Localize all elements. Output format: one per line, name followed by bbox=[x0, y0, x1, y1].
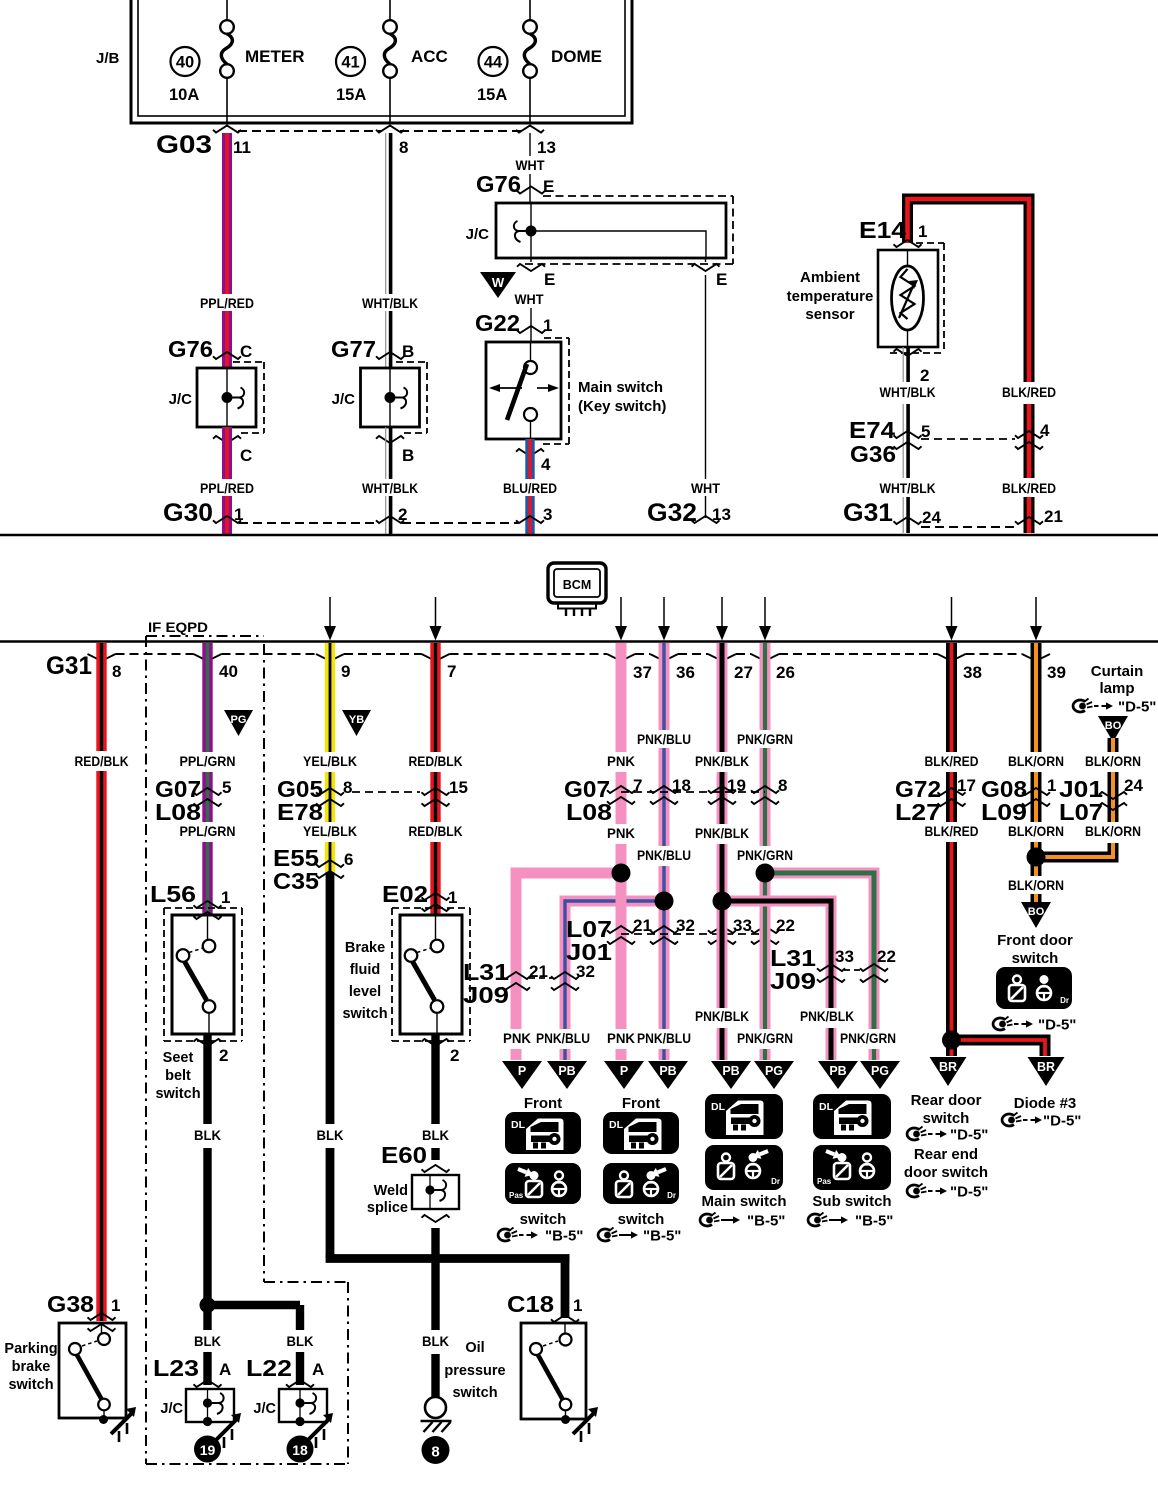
rear door switch labels bbox=[911, 1092, 982, 1127]
svg-text:PPL/GRN: PPL/GRN bbox=[180, 754, 236, 769]
connector G30 row bbox=[163, 499, 552, 527]
svg-text:BCM: BCM bbox=[563, 578, 591, 592]
wire PNK/BLU to L07/J01-32 and triangle bbox=[637, 906, 691, 1060]
svg-text:YB: YB bbox=[349, 714, 364, 726]
reference eye B-5 (driver switch) bbox=[598, 1228, 681, 1245]
wire code triangle BO (curtain lamp) bbox=[1098, 716, 1128, 742]
wire PNK branch to L31/J09-21 bbox=[503, 873, 621, 1060]
svg-text:33: 33 bbox=[733, 916, 752, 935]
svg-text:"B-5": "B-5" bbox=[545, 1228, 583, 1245]
svg-text:WHT: WHT bbox=[691, 481, 721, 496]
svg-text:PNK/BLU: PNK/BLU bbox=[637, 848, 691, 863]
connector G31 (lower) dashed row with pin numbers bbox=[46, 652, 1066, 682]
svg-text:Seet: Seet bbox=[163, 1050, 194, 1066]
svg-text:P: P bbox=[620, 1064, 628, 1078]
junction dot seat-belt ground branch bbox=[200, 1297, 216, 1313]
svg-text:switch: switch bbox=[923, 1110, 970, 1127]
svg-text:24: 24 bbox=[1124, 776, 1143, 795]
connector L31 J09 (pins 33 22, right) bbox=[770, 945, 896, 994]
svg-text:Front door: Front door bbox=[997, 932, 1073, 949]
svg-text:belt: belt bbox=[165, 1068, 191, 1084]
svg-text:1: 1 bbox=[111, 1296, 120, 1315]
svg-text:PG: PG bbox=[871, 1064, 889, 1078]
wire PNK/GRN branch to L31/J09-22 bbox=[765, 873, 896, 1060]
diode 3 label bbox=[1014, 1095, 1077, 1112]
svg-text:PNK/BLU: PNK/BLU bbox=[637, 1031, 691, 1046]
svg-text:J01: J01 bbox=[566, 939, 612, 965]
wire code triangle BO (front door switch) bbox=[1021, 902, 1051, 928]
svg-text:PNK/BLU: PNK/BLU bbox=[637, 732, 691, 747]
svg-text:PB: PB bbox=[722, 1064, 739, 1078]
wire BLK/ORN from G31-39 to front door switch bbox=[1008, 643, 1064, 902]
seat belt switch L56 bbox=[150, 881, 242, 1102]
svg-text:BLK/ORN: BLK/ORN bbox=[1085, 754, 1141, 769]
fuse 40 METER 10A bbox=[169, 0, 305, 123]
connector G07 L08 (pin 5) bbox=[155, 776, 231, 825]
svg-text:L09: L09 bbox=[981, 799, 1027, 825]
svg-text:Oil: Oil bbox=[465, 1340, 484, 1356]
svg-text:Front: Front bbox=[524, 1095, 562, 1112]
svg-text:Diode #3: Diode #3 bbox=[1014, 1095, 1077, 1112]
svg-text:Parking: Parking bbox=[4, 1341, 57, 1357]
wire PPL/RED from G03-11 to G76 bbox=[200, 133, 254, 368]
wire BLK junction to L23 bbox=[194, 1309, 221, 1385]
junction dot PNK/BLK bbox=[713, 892, 732, 911]
svg-text:2: 2 bbox=[450, 1046, 459, 1065]
svg-text:PNK/BLK: PNK/BLK bbox=[800, 1009, 854, 1024]
svg-text:19: 19 bbox=[727, 776, 746, 795]
wire BLK from E55/C35-6 to oil pressure switch branch bbox=[317, 872, 344, 1258]
svg-text:fluid: fluid bbox=[350, 962, 381, 978]
fuse 41 ACC 15A bbox=[336, 0, 448, 123]
junction dot BLK/ORN bbox=[1027, 848, 1046, 867]
connector L07 J01 (pins 21 32 33 22) bbox=[566, 916, 795, 965]
svg-text:15A: 15A bbox=[336, 86, 366, 104]
svg-text:11: 11 bbox=[233, 138, 251, 157]
svg-text:37: 37 bbox=[633, 663, 652, 682]
connector L31 J09 (pins 21 32, left) bbox=[463, 959, 595, 1008]
svg-text:15A: 15A bbox=[477, 86, 507, 104]
svg-text:ACC: ACC bbox=[411, 47, 448, 66]
reference eye D-5 (rear end door switch) bbox=[907, 1184, 988, 1201]
svg-text:"B-5": "B-5" bbox=[747, 1213, 785, 1230]
svg-text:8: 8 bbox=[431, 1444, 439, 1461]
svg-text:G03: G03 bbox=[156, 131, 212, 159]
svg-text:27: 27 bbox=[734, 663, 753, 682]
svg-text:lamp: lamp bbox=[1099, 680, 1134, 697]
svg-text:38: 38 bbox=[963, 663, 982, 682]
separator line between sections bbox=[0, 534, 1158, 537]
wire PNK/GRN from G31-26 bbox=[737, 643, 793, 867]
wire YEL/BLK from G31-9 to E55/C35 bbox=[303, 643, 357, 872]
wire WHT/BLK from G77-B to G30-2 bbox=[362, 427, 418, 534]
svg-text:Weld: Weld bbox=[374, 1183, 408, 1199]
svg-text:1: 1 bbox=[543, 316, 552, 335]
connector G32 bbox=[647, 499, 731, 527]
wire BLK/RED branch to diode 3 bbox=[952, 1040, 1046, 1056]
svg-text:J/C: J/C bbox=[253, 1401, 276, 1417]
svg-text:PNK/GRN: PNK/GRN bbox=[737, 732, 793, 747]
svg-text:33: 33 bbox=[835, 947, 854, 966]
svg-text:BLK/RED: BLK/RED bbox=[1002, 481, 1056, 496]
svg-text:1: 1 bbox=[918, 222, 927, 241]
svg-text:BLK: BLK bbox=[317, 1128, 344, 1143]
junction connector G76 (top right) J/C bbox=[466, 171, 733, 264]
svg-text:temperature: temperature bbox=[787, 288, 874, 305]
svg-text:J09: J09 bbox=[463, 982, 509, 1008]
wire WHT from G03-13 to G76-E bbox=[516, 133, 546, 203]
rear end door switch labels bbox=[904, 1146, 988, 1181]
wire RED/BLK from G31-8 to G38-1 bbox=[75, 643, 129, 1321]
svg-text:Rear end: Rear end bbox=[914, 1146, 978, 1163]
svg-text:sensor: sensor bbox=[805, 306, 854, 323]
svg-text:RED/BLK: RED/BLK bbox=[409, 754, 463, 769]
svg-text:PNK: PNK bbox=[607, 826, 635, 841]
reference eye D-5 (front door switch) bbox=[993, 1017, 1076, 1034]
svg-text:PNK/BLK: PNK/BLK bbox=[695, 1009, 749, 1024]
svg-text:L08: L08 bbox=[566, 799, 612, 825]
svg-text:G32: G32 bbox=[647, 499, 697, 527]
svg-text:21: 21 bbox=[633, 916, 652, 935]
svg-text:L22: L22 bbox=[246, 1355, 292, 1381]
svg-text:J/C: J/C bbox=[466, 226, 490, 243]
wire BLK horizontal run to C18 bbox=[326, 1258, 570, 1318]
arrows from BCM into bus bbox=[324, 597, 1042, 641]
svg-text:YEL/BLK: YEL/BLK bbox=[303, 754, 357, 769]
svg-text:4: 4 bbox=[541, 455, 551, 474]
svg-text:2: 2 bbox=[920, 366, 929, 385]
svg-text:BR: BR bbox=[1037, 1060, 1055, 1074]
svg-text:WHT/BLK: WHT/BLK bbox=[362, 296, 418, 311]
svg-text:E: E bbox=[543, 177, 554, 196]
svg-text:G22: G22 bbox=[475, 310, 520, 336]
svg-text:Dr: Dr bbox=[771, 1177, 780, 1186]
wire BLK/RED from E14-1 to G31-21 bbox=[908, 199, 1057, 533]
svg-text:C: C bbox=[240, 342, 252, 361]
svg-text:DL: DL bbox=[819, 1101, 834, 1113]
connector G08 L09 (pin 1) bbox=[981, 776, 1056, 825]
svg-text:IF EQPD: IF EQPD bbox=[148, 619, 208, 635]
svg-text:PPL/GRN: PPL/GRN bbox=[180, 824, 236, 839]
junction block J/B bbox=[96, 0, 632, 123]
svg-text:splice: splice bbox=[367, 1200, 408, 1216]
connector E02 pin 15 bbox=[422, 778, 468, 806]
svg-text:BLK: BLK bbox=[287, 1334, 314, 1349]
svg-text:"D-5": "D-5" bbox=[1118, 699, 1156, 716]
svg-text:BLK: BLK bbox=[194, 1334, 221, 1349]
junction dot BLK/RED bbox=[942, 1031, 961, 1050]
svg-text:PG: PG bbox=[231, 714, 247, 726]
svg-text:WHT/BLK: WHT/BLK bbox=[880, 481, 936, 496]
svg-text:E60: E60 bbox=[381, 1142, 427, 1168]
svg-text:"D-5": "D-5" bbox=[1043, 1113, 1081, 1130]
svg-text:door switch: door switch bbox=[904, 1164, 988, 1181]
wire PNK to L07/J01-21 and triangle bbox=[607, 878, 635, 1060]
svg-text:G77: G77 bbox=[331, 336, 376, 362]
svg-text:C35: C35 bbox=[273, 868, 319, 894]
svg-text:DL: DL bbox=[711, 1101, 726, 1113]
svg-text:BLK/ORN: BLK/ORN bbox=[1085, 824, 1141, 839]
svg-text:10A: 10A bbox=[169, 86, 199, 104]
svg-text:18: 18 bbox=[672, 776, 691, 795]
svg-text:PNK/BLK: PNK/BLK bbox=[695, 754, 749, 769]
svg-text:E: E bbox=[716, 270, 727, 289]
svg-text:WHT: WHT bbox=[515, 292, 545, 307]
connector E74 G36 row bbox=[849, 417, 1050, 467]
svg-text:Main switch: Main switch bbox=[578, 379, 663, 396]
svg-text:"D-5": "D-5" bbox=[950, 1184, 988, 1201]
svg-text:switch: switch bbox=[452, 1385, 497, 1401]
reference eye D-5 (rear door switch) bbox=[907, 1127, 988, 1144]
connector G03 row bbox=[156, 126, 556, 160]
BCM module bbox=[548, 563, 606, 616]
junction connector L22 J/C with ground 18 bbox=[246, 1355, 333, 1463]
svg-text:18: 18 bbox=[292, 1442, 308, 1458]
junction dot PNK bbox=[612, 864, 631, 883]
weld splice E60 bbox=[367, 1142, 459, 1222]
svg-text:Sub switch: Sub switch bbox=[812, 1193, 891, 1210]
svg-text:2: 2 bbox=[219, 1046, 228, 1065]
svg-text:BO: BO bbox=[1105, 720, 1122, 732]
svg-text:J/C: J/C bbox=[169, 391, 193, 408]
svg-text:Main switch: Main switch bbox=[701, 1193, 786, 1210]
svg-text:G36: G36 bbox=[850, 441, 896, 467]
wire PPL/RED from G76-C to G30-1 bbox=[200, 427, 254, 534]
svg-text:G76: G76 bbox=[476, 171, 521, 197]
svg-text:Curtain: Curtain bbox=[1091, 663, 1144, 680]
svg-text:A: A bbox=[219, 1360, 231, 1379]
reference eye B-5 (passenger switch) bbox=[498, 1228, 583, 1245]
front door switch labels bbox=[997, 932, 1073, 967]
svg-text:39: 39 bbox=[1047, 663, 1066, 682]
wire PNK/GRN to PG triangle (main) bbox=[737, 878, 793, 1060]
svg-text:C18: C18 bbox=[507, 1291, 554, 1317]
sub switch icons bbox=[812, 1094, 891, 1210]
wire WHT from J/C G76-E to G22-1 bbox=[515, 258, 556, 341]
junction connector G76 J/C bbox=[168, 336, 264, 465]
svg-text:BLK: BLK bbox=[422, 1334, 449, 1349]
junction connector L23 J/C with ground 19 bbox=[153, 1355, 241, 1463]
curtain lamp label bbox=[1091, 663, 1144, 697]
ground 8 bbox=[421, 1397, 452, 1464]
wire RED/BLK from G31-7 to E02-1 bbox=[409, 643, 463, 915]
svg-text:Front: Front bbox=[622, 1095, 660, 1112]
connector G07 L08 (pins 7 18 19 8) bbox=[564, 776, 787, 825]
svg-text:brake: brake bbox=[12, 1359, 51, 1375]
wire PNK/BLK branch to L31/J09-33 bbox=[722, 901, 854, 1060]
wire BLK from L56-2 to junction bbox=[194, 1034, 229, 1309]
svg-text:BLK/RED: BLK/RED bbox=[925, 754, 979, 769]
svg-text:40: 40 bbox=[219, 662, 238, 681]
svg-text:DL: DL bbox=[511, 1119, 526, 1131]
svg-text:PNK: PNK bbox=[503, 1031, 531, 1046]
svg-text:C: C bbox=[240, 446, 252, 465]
svg-text:Ambient: Ambient bbox=[800, 269, 860, 286]
svg-text:9: 9 bbox=[341, 662, 350, 681]
svg-text:BLK: BLK bbox=[194, 1128, 221, 1143]
wire code triangle BR (rear door switch) bbox=[930, 1057, 967, 1086]
svg-text:switch: switch bbox=[155, 1086, 200, 1102]
svg-text:YEL/BLK: YEL/BLK bbox=[303, 824, 357, 839]
svg-text:PNK/GRN: PNK/GRN bbox=[840, 1031, 896, 1046]
svg-text:B: B bbox=[402, 342, 414, 361]
svg-text:PB: PB bbox=[558, 1064, 575, 1078]
svg-text:PNK: PNK bbox=[607, 754, 635, 769]
wire PNK/BLK to PB triangle (main) bbox=[695, 906, 749, 1060]
svg-text:J/C: J/C bbox=[332, 391, 356, 408]
svg-text:WHT/BLK: WHT/BLK bbox=[880, 385, 936, 400]
svg-text:G31: G31 bbox=[46, 652, 92, 680]
wire code triangles P PB P PB PB PG PB PG bbox=[502, 1061, 900, 1089]
svg-text:Pas: Pas bbox=[817, 1177, 832, 1186]
svg-text:32: 32 bbox=[676, 916, 695, 935]
svg-text:PNK/BLU: PNK/BLU bbox=[536, 1031, 590, 1046]
junction connector G77 J/C bbox=[331, 336, 427, 465]
brake fluid level switch E02 bbox=[342, 881, 470, 1041]
svg-text:13: 13 bbox=[537, 138, 556, 157]
svg-text:switch: switch bbox=[618, 1211, 665, 1228]
svg-text:2: 2 bbox=[398, 505, 407, 524]
junction dot PNK/GRN bbox=[756, 864, 775, 883]
svg-text:BLK/RED: BLK/RED bbox=[925, 824, 979, 839]
svg-text:PB: PB bbox=[659, 1064, 676, 1078]
svg-text:5: 5 bbox=[222, 778, 231, 797]
svg-text:L07: L07 bbox=[1059, 799, 1103, 825]
svg-text:P: P bbox=[518, 1064, 526, 1078]
svg-text:G38: G38 bbox=[47, 1291, 94, 1317]
svg-text:"D-5": "D-5" bbox=[1038, 1017, 1076, 1034]
svg-text:44: 44 bbox=[484, 54, 503, 72]
wire BLK branch to L22 bbox=[208, 1305, 314, 1385]
wire PNK/BLU branch to L31/J09-32 bbox=[536, 901, 664, 1060]
front door lock switch icons (driver) bbox=[603, 1095, 679, 1228]
svg-text:3: 3 bbox=[543, 505, 552, 524]
svg-text:Rear door: Rear door bbox=[911, 1092, 982, 1109]
svg-text:4: 4 bbox=[1040, 421, 1050, 440]
svg-text:7: 7 bbox=[633, 776, 642, 795]
wire BLU/RED from G22-4 to G30-3 bbox=[503, 439, 557, 534]
svg-text:G30: G30 bbox=[163, 499, 213, 527]
svg-text:BLK/ORN: BLK/ORN bbox=[1008, 824, 1064, 839]
svg-text:BR: BR bbox=[939, 1060, 957, 1074]
svg-text:1: 1 bbox=[573, 1296, 582, 1315]
svg-text:E14: E14 bbox=[859, 217, 906, 243]
svg-text:26: 26 bbox=[776, 663, 795, 682]
svg-text:PPL/RED: PPL/RED bbox=[200, 296, 254, 311]
connector G05 E78 (pin 8) bbox=[277, 776, 352, 825]
svg-text:Pas: Pas bbox=[509, 1191, 524, 1200]
svg-text:"B-5": "B-5" bbox=[643, 1228, 681, 1245]
wire PPL/GRN from G31-40 to L56-1 bbox=[180, 643, 236, 915]
front door switch icon bbox=[996, 967, 1072, 1009]
svg-text:"D-5": "D-5" bbox=[950, 1127, 988, 1144]
svg-text:24: 24 bbox=[922, 508, 941, 527]
connector G31 (top) row bbox=[843, 499, 1063, 527]
svg-text:switch: switch bbox=[8, 1377, 53, 1393]
wire WHT/BLK from G03-8 to G77 bbox=[362, 133, 418, 368]
ambient temperature sensor E14 bbox=[787, 217, 944, 353]
svg-text:E74: E74 bbox=[849, 417, 895, 443]
wire code triangle PG bbox=[224, 710, 253, 736]
svg-text:pressure: pressure bbox=[444, 1363, 505, 1379]
connector E55 C35 (pin 6) bbox=[273, 845, 353, 894]
svg-text:1: 1 bbox=[1047, 776, 1056, 795]
fuse 44 DOME 15A bbox=[477, 0, 602, 123]
connector J01 L07 (pin 24) bbox=[1059, 776, 1143, 825]
svg-text:BO: BO bbox=[1028, 906, 1045, 918]
wire PNK/BLK from G31-27 bbox=[695, 643, 749, 896]
svg-text:switch: switch bbox=[520, 1211, 567, 1228]
wire BLK/ORN from curtain lamp BO to junction bbox=[1036, 738, 1141, 857]
svg-text:21: 21 bbox=[1044, 507, 1063, 526]
svg-text:L23: L23 bbox=[153, 1355, 199, 1381]
svg-text:19: 19 bbox=[200, 1442, 216, 1458]
svg-text:"B-5": "B-5" bbox=[855, 1213, 893, 1230]
wire WHT from J/C G76-E to G32-13 bbox=[691, 258, 727, 518]
svg-text:13: 13 bbox=[712, 505, 731, 524]
svg-text:E78: E78 bbox=[277, 799, 323, 825]
svg-text:BLK/RED: BLK/RED bbox=[1002, 385, 1056, 400]
svg-text:22: 22 bbox=[877, 947, 896, 966]
svg-text:J/C: J/C bbox=[160, 1401, 183, 1417]
svg-text:J09: J09 bbox=[770, 968, 816, 994]
svg-text:BLK/ORN: BLK/ORN bbox=[1008, 878, 1064, 893]
svg-text:L56: L56 bbox=[150, 881, 196, 907]
warning triangle W bbox=[480, 272, 516, 298]
svg-text:level: level bbox=[349, 984, 381, 1000]
svg-text:1: 1 bbox=[221, 888, 230, 907]
svg-text:17: 17 bbox=[957, 776, 976, 795]
svg-text:PPL/RED: PPL/RED bbox=[200, 481, 254, 496]
wire code triangle BR (diode) bbox=[1028, 1057, 1065, 1086]
svg-text:PNK: PNK bbox=[607, 1031, 635, 1046]
svg-text:22: 22 bbox=[776, 916, 795, 935]
svg-text:RED/BLK: RED/BLK bbox=[75, 754, 129, 769]
svg-text:switch: switch bbox=[342, 1006, 387, 1022]
svg-text:6: 6 bbox=[344, 850, 353, 869]
IF EQPD dashed boundary bbox=[146, 619, 348, 1464]
main switch (key switch) G22 bbox=[475, 310, 666, 444]
svg-text:8: 8 bbox=[399, 138, 408, 157]
svg-text:40: 40 bbox=[176, 54, 194, 72]
svg-text:21: 21 bbox=[529, 962, 548, 981]
svg-text:BLK/ORN: BLK/ORN bbox=[1008, 754, 1064, 769]
connector G72 L27 (pin 17) bbox=[895, 776, 976, 825]
svg-text:BLU/RED: BLU/RED bbox=[503, 481, 557, 496]
reference eye D-5 (curtain lamp) bbox=[1073, 699, 1156, 716]
svg-text:Dr: Dr bbox=[667, 1191, 676, 1200]
svg-text:W: W bbox=[492, 275, 505, 290]
main switch icons bbox=[701, 1094, 786, 1210]
svg-text:8: 8 bbox=[778, 776, 787, 795]
wire BLK/RED to BR triangle bbox=[946, 1040, 957, 1056]
svg-text:DL: DL bbox=[609, 1119, 624, 1131]
svg-text:36: 36 bbox=[676, 663, 695, 682]
svg-text:A: A bbox=[312, 1360, 324, 1379]
reference eye D-5 (diode 3) bbox=[1002, 1113, 1081, 1130]
wire PNK from G31-37 bbox=[607, 643, 635, 867]
wire BLK from E02-2 to weld splice E60 bbox=[422, 1034, 460, 1160]
parking brake switch G38 bbox=[4, 1291, 136, 1442]
svg-text:BLK: BLK bbox=[422, 1128, 449, 1143]
junction dot PNK/BLU bbox=[655, 892, 674, 911]
wire BLK/RED from G31-38 to rear door switch bbox=[925, 643, 979, 1056]
svg-text:WHT/BLK: WHT/BLK bbox=[362, 481, 418, 496]
oil pressure switch C18 bbox=[444, 1291, 598, 1442]
svg-text:RED/BLK: RED/BLK bbox=[409, 824, 463, 839]
svg-text:METER: METER bbox=[245, 47, 305, 66]
svg-text:PB: PB bbox=[829, 1064, 846, 1078]
